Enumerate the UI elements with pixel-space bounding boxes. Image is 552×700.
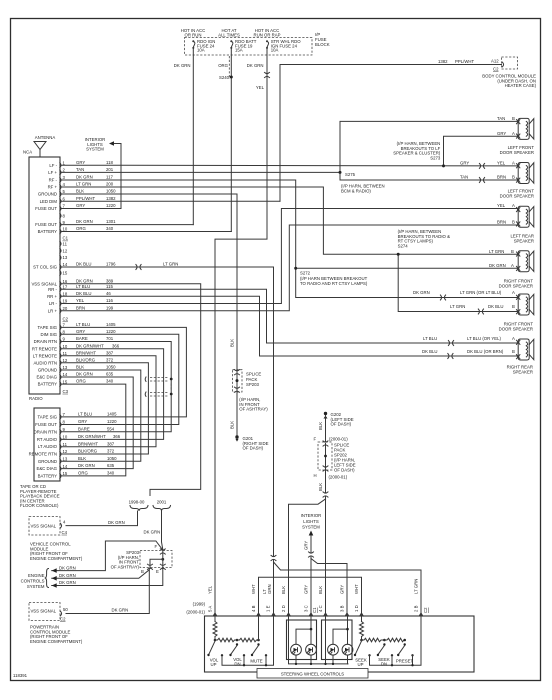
svg-text:RR +: RR + — [47, 294, 57, 299]
contact posts and rail — [221, 654, 223, 656]
svg-text:F: F — [155, 544, 158, 549]
svg-text:YEL: YEL — [497, 203, 506, 208]
LT GRN connector and branch rail to 2B — [271, 555, 276, 560]
node SEEK DN pivot — [383, 643, 385, 645]
wire ORG from RDO BATT fuse down to radio pin 10 — [230, 48, 232, 232]
wire pin B down to PCM with diagonal from row2 — [66, 569, 149, 614]
svg-text:A: A — [512, 131, 515, 136]
svg-text:200: 200 — [106, 182, 114, 187]
svg-text:SPEAKER: SPEAKER — [514, 238, 534, 243]
svg-text:WHT: WHT — [251, 584, 256, 594]
svg-text:635: 635 — [107, 463, 115, 468]
svg-text:RT AUDIO: RT AUDIO — [37, 437, 58, 442]
svg-text:1 E: 1 E — [266, 605, 271, 612]
svg-text:14: 14 — [63, 262, 68, 267]
svg-text:A: A — [512, 203, 515, 208]
svg-text:1 D: 1 D — [354, 605, 359, 612]
svg-text:TO RADIO AND RT CTSY LAMPS): TO RADIO AND RT CTSY LAMPS) — [300, 281, 368, 286]
svg-text:TAPE SIG: TAPE SIG — [38, 414, 58, 419]
wire pin E down to row3 engine controls — [52, 569, 163, 586]
svg-text:S272: S272 — [300, 271, 311, 276]
svg-text:SPEAKER: SPEAKER — [513, 369, 533, 374]
svg-text:GRN: GRN — [267, 584, 272, 594]
dashed stub under fuse block at ORG — [228, 56, 230, 79]
svg-text:BLK/ORG: BLK/ORG — [78, 449, 98, 454]
wire DK GRN 1301 pin9 — [62, 224, 193, 226]
svg-text:DK BLU: DK BLU — [422, 349, 438, 354]
svg-text:19: 19 — [63, 299, 68, 304]
svg-text:DK GRN: DK GRN — [78, 463, 95, 468]
radio pin stubs and numbers — [60, 160, 69, 393]
wire LT BLU 115 pin17 to right rear speaker — [62, 289, 518, 343]
svg-text:1050: 1050 — [106, 365, 116, 370]
svg-text:GRY: GRY — [497, 131, 506, 136]
svg-text:1382: 1382 — [106, 196, 116, 201]
splice S275 — [339, 171, 342, 174]
svg-text:BLK: BLK — [318, 422, 323, 430]
GRY wire down to 3C with branch rail to 3B — [310, 557, 312, 617]
inline connector on YEL wire — [265, 72, 270, 77]
svg-text:DK GRN/WHT: DK GRN/WHT — [78, 434, 106, 439]
svg-text:GRY: GRY — [460, 161, 469, 166]
svg-text:FUSE OUT: FUSE OUT — [35, 206, 57, 211]
svg-text:YEL: YEL — [76, 298, 85, 303]
svg-text:GROUND: GROUND — [38, 368, 57, 373]
svg-text:1405: 1405 — [106, 322, 116, 327]
svg-text:18: 18 — [63, 292, 68, 297]
wire LT BLU 1405 radio pin7 to tape pin7 — [62, 327, 186, 417]
svg-text:VSS SIGNAL: VSS SIGNAL — [31, 281, 57, 286]
svg-text:OF DASH): OF DASH) — [334, 468, 355, 473]
svg-text:GRY: GRY — [340, 585, 345, 594]
svg-text:LR +: LR + — [48, 308, 58, 313]
svg-text:GRY: GRY — [304, 585, 309, 594]
svg-text:GRY: GRY — [76, 329, 85, 334]
svg-text:INTERIOR: INTERIOR — [301, 513, 322, 518]
svg-text:DK GRN: DK GRN — [174, 63, 191, 68]
svg-text:LF +: LF + — [48, 170, 57, 175]
svg-text:DK GRN: DK GRN — [76, 219, 93, 224]
wire YEL from STR WHL RDO fuse down, jogs left, to steering wheel pin 5A — [215, 48, 267, 616]
wire YEL 116 pin19 to left rear speaker — [62, 209, 518, 304]
svg-text:OF DASH): OF DASH) — [243, 446, 264, 451]
svg-text:OR RUN: OR RUN — [185, 32, 202, 37]
svg-text:15A: 15A — [235, 48, 243, 53]
svg-text:DOOR SPEAKER: DOOR SPEAKER — [500, 193, 534, 198]
svg-text:A: A — [512, 161, 515, 166]
svg-text:1050: 1050 — [107, 456, 117, 461]
svg-text:701: 701 — [106, 336, 114, 341]
node MUTE pivot — [257, 643, 259, 645]
svg-text:LT BLU (OR YEL): LT BLU (OR YEL) — [467, 336, 501, 341]
BLK wire down with branch to 2D and 4C — [325, 470, 327, 493]
svg-text:201: 201 — [106, 167, 114, 172]
LED D2 — [306, 644, 317, 655]
harness splice dashes and dots on staircase — [150, 378, 169, 382]
svg-text:SYSTEM: SYSTEM — [302, 524, 320, 529]
svg-text:BLK: BLK — [230, 339, 235, 347]
svg-text:GRY: GRY — [304, 541, 309, 550]
svg-text:DOOR SPEAKER: DOOR SPEAKER — [500, 150, 534, 155]
svg-text:TAN: TAN — [497, 116, 505, 121]
svg-text:4 B: 4 B — [251, 605, 256, 612]
svg-text:118: 118 — [106, 160, 113, 165]
svg-text:SYSTEM: SYSTEM — [27, 584, 45, 589]
svg-text:HEATER CASE): HEATER CASE) — [505, 83, 537, 88]
splice S272 — [294, 267, 297, 270]
svg-text:DK BLU (OR BRN): DK BLU (OR BRN) — [467, 349, 504, 354]
svg-text:1998-00: 1998-00 — [129, 500, 145, 505]
svg-text:S274: S274 — [398, 243, 409, 248]
svg-text:BRN: BRN — [497, 175, 506, 180]
svg-text:15: 15 — [63, 471, 68, 476]
svg-text:17: 17 — [63, 285, 68, 290]
node VOL DN pivot — [236, 643, 238, 645]
wire ORG 340 pin10 — [62, 231, 231, 233]
svg-text:554: 554 — [107, 426, 115, 431]
LED D3 — [328, 644, 339, 655]
svg-text:117: 117 — [106, 175, 113, 180]
svg-text:16: 16 — [63, 279, 68, 284]
svg-text:DK GRN: DK GRN — [59, 573, 76, 578]
svg-text:UP: UP — [358, 662, 364, 667]
svg-text:B: B — [512, 349, 515, 354]
svg-text:GRY: GRY — [76, 203, 85, 208]
svg-text:E: E — [156, 569, 159, 574]
svg-text:BATTERY: BATTERY — [38, 229, 58, 234]
svg-text:A: A — [511, 263, 514, 268]
svg-text:SYSTEM: SYSTEM — [86, 147, 104, 152]
wire ORG 340 radio pin15 to tape pin15 — [62, 384, 126, 476]
svg-text:C1: C1 — [312, 607, 317, 613]
svg-text:(2000-01): (2000-01) — [186, 610, 205, 615]
svg-text:CONTROLS: CONTROLS — [21, 579, 45, 584]
svg-text:BRN: BRN — [497, 220, 506, 225]
fuse STR WHL RDO IGN FUSE 24 10A — [266, 40, 269, 49]
ENGINE CONTROLS SYSTEM arrows — [52, 568, 57, 573]
switch SEEK DN — [378, 646, 384, 655]
svg-text:B: B — [512, 175, 515, 180]
svg-text:OF ASHTRAY): OF ASHTRAY) — [111, 564, 140, 569]
wire DK GRN from RDO IGN fuse down to radio pin 9 — [192, 48, 194, 225]
svg-text:LT GRN: LT GRN — [450, 304, 465, 309]
svg-text:14: 14 — [63, 464, 68, 469]
svg-text:SPLICE: SPLICE — [246, 372, 261, 377]
svg-text:ALL TIMES: ALL TIMES — [218, 32, 240, 37]
svg-text:340: 340 — [106, 379, 114, 384]
wire GRY 1220 radio pin8 to tape pin8 — [62, 334, 179, 424]
svg-text:YEL: YEL — [256, 85, 265, 90]
wire GRY 118 pin1 to left front door speakers (S273) — [62, 136, 518, 166]
wire LT GRN 200 pin4 to right front door speakers (S274) — [62, 187, 518, 312]
svg-text:S240: S240 — [219, 75, 230, 80]
switch VOL DN — [231, 646, 237, 655]
svg-text:LT GRN: LT GRN — [163, 262, 178, 267]
svg-text:LR -: LR - — [49, 301, 58, 306]
wire 1382 PPL/WHT from radio pin 6 up and right to BCM — [280, 65, 502, 202]
svg-text:372: 372 — [107, 449, 115, 454]
svg-text:ANTENNA: ANTENNA — [35, 135, 56, 140]
svg-text:ENGINE COMPARTMENT): ENGINE COMPARTMENT) — [30, 556, 83, 561]
wire PPL/WHT 1382 pin6 — [62, 200, 280, 202]
splice pack SP203 (second) — [140, 551, 172, 568]
svg-text:RUN OR RAP: RUN OR RAP — [254, 32, 281, 37]
svg-text:1796: 1796 — [106, 262, 116, 267]
svg-text:1220: 1220 — [106, 329, 116, 334]
svg-text:372: 372 — [106, 357, 114, 362]
svg-text:15: 15 — [63, 271, 68, 276]
wire DK GRN 389 pin16 VSS SIGNAL — [62, 284, 201, 496]
switch PRESET — [399, 646, 405, 655]
svg-text:DOOR SPEAKER: DOOR SPEAKER — [499, 326, 533, 331]
svg-text:B: B — [512, 220, 515, 225]
svg-text:DK GRN: DK GRN — [489, 263, 506, 268]
svg-text:PPL/WHT: PPL/WHT — [455, 59, 474, 64]
svg-text:NCA: NCA — [23, 150, 32, 155]
splice S273 — [442, 164, 445, 167]
svg-text:BARE: BARE — [78, 426, 90, 431]
svg-text:366: 366 — [113, 434, 121, 439]
svg-text:ORG: ORG — [76, 379, 86, 384]
ground G201 — [235, 435, 238, 441]
wire GRY 1220 from radio pin 7 up to interior lights — [114, 144, 121, 209]
svg-text:ORG: ORG — [76, 226, 86, 231]
svg-text:A12: A12 — [491, 59, 499, 64]
svg-text:DK BLU: DK BLU — [76, 291, 92, 296]
wire TAN 201 pin2 to left front door speakers (S275) — [62, 121, 518, 180]
svg-text:10: 10 — [63, 227, 68, 232]
svg-text:LT BLU: LT BLU — [76, 284, 90, 289]
wire BLK 1050 radio pin13 to tape pin13 — [62, 370, 141, 461]
svg-text:10A: 10A — [197, 48, 205, 53]
svg-text:12: 12 — [63, 449, 68, 454]
svg-text:RR -: RR - — [48, 287, 57, 292]
svg-text:LT BLU: LT BLU — [78, 412, 92, 417]
svg-text:118391: 118391 — [13, 673, 28, 678]
svg-text:ENGINE COMPARTMENT): ENGINE COMPARTMENT) — [30, 639, 83, 644]
svg-text:B: B — [512, 304, 515, 309]
svg-text:LT GRN: LT GRN — [414, 579, 419, 594]
svg-text:LT GRN: LT GRN — [489, 249, 504, 254]
wire DK GRN to VCM VSS SIGNAL (1998-00) — [66, 511, 138, 526]
svg-text:DN: DN — [381, 662, 387, 667]
svg-text:C1: C1 — [63, 236, 69, 241]
svg-text:H: H — [314, 473, 317, 478]
svg-text:LT BLU: LT BLU — [76, 322, 90, 327]
POWERTRAIN CONTROL MODULE — [29, 603, 60, 621]
svg-text:LIGHTS: LIGHTS — [303, 519, 319, 524]
svg-text:TAPE SIG: TAPE SIG — [38, 325, 58, 330]
svg-text:C4: C4 — [62, 530, 68, 535]
svg-text:12: 12 — [63, 248, 68, 253]
wire BLK/ORG 372 radio pin12 to tape pin12 — [62, 363, 148, 454]
wire row1 DK GRN to engine controls (joins F entry) — [52, 541, 163, 571]
LED D1 — [291, 644, 302, 655]
underbrace 2001 — [153, 506, 171, 512]
svg-text:10: 10 — [63, 344, 68, 349]
svg-text:C2: C2 — [63, 317, 69, 322]
svg-text:PRESET: PRESET — [396, 659, 414, 664]
resistor vertical under 5A — [213, 616, 217, 640]
svg-text:RF +: RF + — [48, 185, 58, 190]
svg-text:15: 15 — [63, 379, 68, 384]
svg-text:DK BLU: DK BLU — [488, 304, 504, 309]
svg-text:B: B — [512, 116, 515, 121]
svg-text:13: 13 — [63, 457, 68, 462]
svg-text:BLK: BLK — [318, 586, 323, 594]
svg-text:4 C: 4 C — [318, 605, 323, 612]
svg-text:2 D: 2 D — [281, 605, 286, 612]
svg-text:DRAIN RTN: DRAIN RTN — [34, 339, 57, 344]
svg-text:11: 11 — [63, 351, 68, 356]
svg-text:(1999): (1999) — [193, 602, 206, 607]
svg-text:635: 635 — [106, 372, 114, 377]
svg-text:BLK/ORG: BLK/ORG — [76, 357, 96, 362]
svg-text:LF -: LF - — [49, 163, 57, 168]
svg-text:VSS SIGNAL: VSS SIGNAL — [30, 609, 56, 614]
svg-text:LT GRN (OR LT BLU): LT GRN (OR LT BLU) — [460, 290, 502, 295]
svg-text:BLK: BLK — [76, 189, 84, 194]
svg-text:LT AUDIO: LT AUDIO — [38, 444, 58, 449]
svg-text:YEL: YEL — [497, 161, 506, 166]
fuse RDO IGN FUSE 24 10A — [192, 40, 195, 49]
svg-text:(2000-01): (2000-01) — [329, 475, 348, 480]
svg-text:MUTE: MUTE — [250, 659, 262, 664]
svg-text:BATTERY: BATTERY — [38, 473, 58, 478]
svg-text:REMOTE RTN: REMOTE RTN — [29, 452, 57, 457]
svg-text:FUSE OUT: FUSE OUT — [35, 422, 57, 427]
svg-text:C3: C3 — [63, 389, 69, 394]
VEHICLE CONTROL MODULE — [29, 517, 60, 536]
svg-text:DRAIN RTN: DRAIN RTN — [34, 429, 57, 434]
svg-text:PPL/WHT: PPL/WHT — [76, 196, 95, 201]
svg-text:DK GRN: DK GRN — [76, 278, 93, 283]
svg-text:E&C DIAG: E&C DIAG — [36, 466, 57, 471]
steering wheel controls label tab — [257, 669, 368, 679]
svg-text:389: 389 — [106, 278, 114, 283]
svg-text:20: 20 — [63, 306, 68, 311]
wire DK GRN (2001) down to SP203 — [162, 511, 163, 551]
LED box 1 wiring — [289, 616, 349, 664]
svg-text:LT BLU: LT BLU — [423, 336, 437, 341]
svg-text:GROUND: GROUND — [38, 459, 57, 464]
svg-text:DK GRN: DK GRN — [108, 520, 125, 525]
svg-text:DK GRN: DK GRN — [413, 290, 430, 295]
svg-text:GRY: GRY — [76, 160, 85, 165]
svg-text:2 B: 2 B — [414, 605, 419, 612]
svg-text:DK GRN: DK GRN — [112, 608, 129, 613]
svg-text:DK GRN: DK GRN — [76, 372, 93, 377]
svg-text:LT GRN: LT GRN — [76, 182, 91, 187]
node PRESET pivot — [404, 643, 406, 645]
svg-text:ST COL SIG: ST COL SIG — [33, 265, 58, 270]
svg-text:DK BLU: DK BLU — [76, 262, 92, 267]
svg-text:C2: C2 — [60, 617, 66, 622]
svg-text:BCM & RADIO): BCM & RADIO) — [341, 188, 371, 193]
svg-text:46: 46 — [106, 291, 111, 296]
svg-text:BRN: BRN — [76, 305, 85, 310]
svg-text:10A: 10A — [271, 48, 279, 53]
svg-text:BLK: BLK — [318, 483, 323, 491]
svg-text:DK GRN: DK GRN — [59, 565, 76, 570]
svg-text:14: 14 — [63, 372, 68, 377]
svg-text:VSS SIGNAL: VSS SIGNAL — [30, 524, 56, 529]
svg-text:340: 340 — [107, 471, 115, 476]
resistor vertical under 1D — [360, 616, 364, 640]
svg-text:A: A — [512, 290, 515, 295]
wire DK GRN 117 pin3 to right front door speakers (S272) — [62, 180, 518, 298]
svg-text:GROUND: GROUND — [38, 192, 57, 197]
svg-text:YEL: YEL — [208, 585, 213, 594]
svg-text:GRY: GRY — [78, 419, 87, 424]
svg-text:3 C: 3 C — [304, 605, 309, 612]
svg-text:UP: UP — [211, 662, 217, 667]
svg-text:BLK: BLK — [76, 365, 84, 370]
svg-text:ORG: ORG — [78, 471, 88, 476]
LED box 2 — [322, 620, 353, 660]
fuse RDO BATT FUSE 19 15A — [230, 40, 233, 49]
svg-text:OF DASH): OF DASH) — [331, 422, 352, 427]
svg-text:B: B — [141, 569, 144, 574]
svg-text:116: 116 — [106, 298, 113, 303]
svg-text:BLOCK: BLOCK — [315, 42, 330, 47]
svg-text:RF -: RF - — [49, 178, 58, 183]
svg-text:BRN/WHT: BRN/WHT — [78, 441, 98, 446]
svg-text:ORG: ORG — [218, 63, 228, 68]
svg-text:TAN: TAN — [460, 175, 468, 180]
svg-text:RADIO: RADIO — [29, 396, 43, 401]
svg-text:11: 11 — [63, 442, 68, 447]
svg-text:387: 387 — [107, 441, 115, 446]
svg-text:FLOOR CONSOLE): FLOOR CONSOLE) — [20, 503, 59, 508]
svg-text:1050: 1050 — [106, 189, 116, 194]
splice pack SP203 — [233, 370, 243, 392]
switch VOL UP — [209, 641, 215, 654]
svg-text:BLK: BLK — [230, 421, 235, 429]
svg-text:S275: S275 — [345, 172, 356, 177]
svg-text:(2000-01): (2000-01) — [329, 437, 348, 442]
svg-text:ENGINE: ENGINE — [28, 573, 45, 578]
wire DK GRN/WHT 366 radio pin10 to tape pin10 — [62, 349, 164, 440]
wire DK GRN 635 radio pin14 to tape pin14 — [62, 377, 133, 469]
svg-text:DK GRN: DK GRN — [144, 530, 161, 535]
svg-text:DIM SIG: DIM SIG — [41, 332, 58, 337]
svg-text:DK GRN: DK GRN — [247, 63, 264, 68]
svg-text:50: 50 — [63, 607, 68, 612]
svg-text:1220: 1220 — [107, 419, 117, 424]
svg-text:10: 10 — [63, 435, 68, 440]
svg-text:S273: S273 — [430, 155, 441, 160]
svg-text:13: 13 — [63, 365, 68, 370]
wire GRY 1220 pin7 — [62, 208, 121, 210]
svg-text:FUSE OUT: FUSE OUT — [35, 222, 57, 227]
LED box 1 — [287, 620, 317, 660]
switch SEEK UP — [356, 641, 362, 654]
svg-text:LED DIM: LED DIM — [40, 199, 58, 204]
svg-text:BLK: BLK — [78, 456, 86, 461]
svg-text:5 A: 5 A — [208, 606, 213, 612]
svg-text:TAN: TAN — [76, 167, 84, 172]
svg-text:1382: 1382 — [438, 59, 448, 64]
svg-text:BRN/WHT: BRN/WHT — [76, 350, 96, 355]
pin entry chevrons — [213, 613, 217, 616]
svg-text:C2: C2 — [493, 67, 499, 72]
underbrace 1998-00 — [130, 506, 148, 512]
svg-text:12: 12 — [63, 358, 68, 363]
svg-text:OF ASHTRAY): OF ASHTRAY) — [239, 407, 268, 412]
svg-text:DN: DN — [234, 662, 240, 667]
svg-text:RT REMOTE: RT REMOTE — [32, 346, 57, 351]
